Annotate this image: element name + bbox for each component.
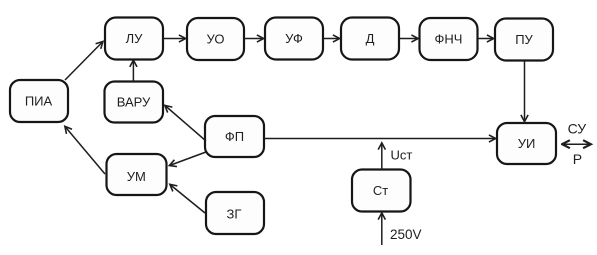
wire UM to PIA	[65, 127, 105, 175]
block FP	[205, 116, 264, 157]
wire D to FNCH	[399, 38, 418, 40]
wire FP to VARU	[165, 106, 206, 142]
block ZG	[206, 192, 264, 234]
svg-text:Р: Р	[573, 151, 582, 167]
svg-text:250V: 250V	[390, 227, 422, 242]
svg-text:УФ: УФ	[285, 31, 303, 46]
wire UF to D	[323, 38, 340, 40]
svg-text:Д: Д	[366, 31, 375, 46]
block UI	[497, 123, 556, 164]
wire LU to UO	[163, 38, 186, 40]
wire 250V supply to St	[381, 213, 383, 245]
block St	[352, 170, 411, 212]
svg-text:Uст: Uст	[391, 148, 413, 163]
svg-text:ФП: ФП	[225, 129, 244, 144]
svg-text:УМ: УМ	[127, 169, 146, 184]
wire FP to UM	[170, 152, 207, 166]
svg-text:УО: УО	[207, 32, 225, 47]
block PU	[495, 19, 553, 61]
wire FNCH to PU	[478, 38, 494, 40]
wire VARU to LU	[132, 60, 134, 81]
svg-text:ЛУ: ЛУ	[126, 31, 144, 46]
wire PIA to LU	[65, 42, 103, 80]
svg-text:ЗГ: ЗГ	[227, 206, 242, 221]
svg-text:ПИА: ПИА	[25, 94, 53, 109]
svg-text:УИ: УИ	[518, 136, 536, 151]
svg-text:Ст: Ст	[373, 183, 388, 198]
block FNCH	[420, 18, 478, 60]
svg-text:СУ: СУ	[568, 121, 587, 137]
block PIA	[10, 80, 68, 122]
wire St to node Ust	[381, 143, 383, 170]
wire ZG to UM	[170, 185, 205, 214]
svg-text:ПУ: ПУ	[515, 32, 533, 47]
wire UO to UF	[244, 38, 264, 40]
wire PU to UI	[524, 61, 526, 122]
block D	[341, 18, 399, 60]
block VARU	[105, 82, 164, 123]
svg-text:ВАРУ: ВАРУ	[117, 95, 151, 110]
wire UI to SU/R bidirectional	[563, 143, 591, 145]
wire FP to UI	[264, 138, 496, 140]
block UF	[265, 18, 323, 60]
block UO	[187, 18, 244, 60]
block LU	[105, 18, 163, 60]
block UM	[107, 154, 167, 195]
svg-text:ФНЧ: ФНЧ	[435, 32, 463, 47]
